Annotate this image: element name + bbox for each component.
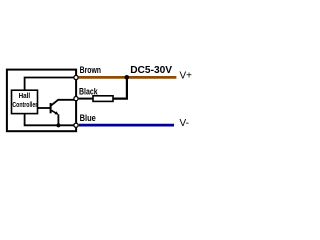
svg-text:Blue: Blue — [80, 112, 96, 123]
svg-text:Brown: Brown — [80, 64, 101, 75]
svg-text:Black: Black — [79, 85, 98, 96]
svg-text:Hall: Hall — [19, 93, 31, 100]
svg-text:DC5-30V: DC5-30V — [130, 65, 172, 76]
svg-text:Controller: Controller — [12, 101, 37, 109]
svg-text:V-: V- — [180, 118, 189, 129]
svg-text:V+: V+ — [180, 71, 193, 82]
